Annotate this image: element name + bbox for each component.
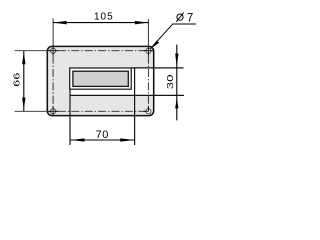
dimension 105 left arrow bbox=[54, 21, 67, 25]
module right edge bbox=[134, 68, 136, 145]
plate outline stroke bbox=[47, 46, 153, 115]
hole crosshair top-right bbox=[144, 46, 154, 56]
cutout slot white region bbox=[70, 68, 153, 96]
centerline right vertical bbox=[147, 19, 149, 111]
diameter label underline bbox=[172, 23, 196, 25]
dimension 30 bottom arrow (points up) bbox=[175, 98, 178, 109]
hole bottom-right bbox=[146, 109, 151, 114]
cutout inner window bbox=[73, 71, 128, 86]
svg-text:66: 66 bbox=[12, 72, 21, 86]
svg-text:7: 7 bbox=[187, 13, 193, 25]
dimension 70 line bbox=[70, 139, 135, 141]
diameter symbol circle bbox=[177, 14, 183, 20]
cutout outer frame bbox=[70, 68, 132, 89]
module top edge bbox=[131, 67, 183, 69]
hole crosshair bottom-right bbox=[144, 107, 149, 112]
svg-text:105: 105 bbox=[94, 11, 114, 22]
dimension 66 line bbox=[23, 51, 25, 112]
dimension 70 left arrow bbox=[71, 138, 85, 141]
dimension 66 top arrow bbox=[22, 52, 25, 64]
module left edge bbox=[69, 89, 71, 145]
dimension 105 right arrow bbox=[135, 21, 148, 25]
diameter leader line bbox=[150, 24, 172, 49]
hole bottom-left bbox=[51, 109, 56, 114]
centerline top horizontal bbox=[15, 50, 154, 52]
centerline bottom horizontal bbox=[15, 110, 149, 112]
dimension 66 bottom arrow bbox=[22, 98, 25, 110]
dimension 30 line bbox=[176, 45, 178, 121]
diameter leader arrow bbox=[150, 41, 159, 50]
diameter symbol slash bbox=[176, 13, 183, 22]
dimension 105 line bbox=[53, 22, 148, 24]
centerline left vertical bbox=[52, 18, 54, 116]
mounting plate body bbox=[47, 46, 153, 115]
hole crosshair top-left bbox=[48, 46, 58, 56]
hole crosshair bottom-left bbox=[48, 107, 58, 117]
dimension 30 top arrow (points down) bbox=[175, 54, 178, 68]
svg-text:30: 30 bbox=[166, 74, 175, 89]
hole top-right bbox=[146, 48, 151, 53]
hole top-left bbox=[51, 48, 56, 53]
module bottom edge bbox=[70, 94, 184, 96]
dimension 70 right arrow bbox=[120, 138, 134, 141]
svg-text:70: 70 bbox=[96, 129, 109, 141]
